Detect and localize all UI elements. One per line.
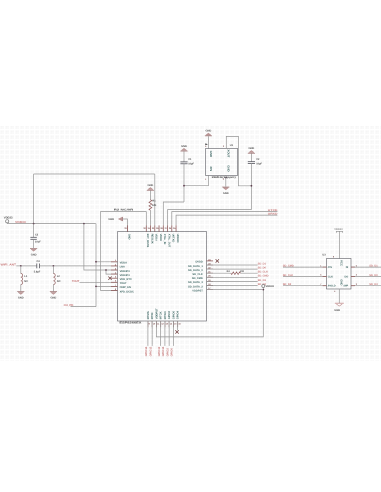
svg-text:GND: GND bbox=[51, 297, 57, 300]
svg-text:GPIO13: GPIO13 bbox=[158, 346, 161, 356]
ground under L1 bbox=[17, 291, 24, 299]
no-connect VDD_RTC bbox=[108, 277, 111, 280]
capacitor C2 10pF bbox=[248, 154, 263, 166]
wire to VDDA pin 1 bbox=[96, 261, 118, 263]
svg-text:U0RXD: U0RXD bbox=[176, 234, 179, 243]
svg-text:VDD33: VDD33 bbox=[334, 228, 343, 231]
pin 21 SD_CLK bbox=[192, 271, 213, 276]
svg-text:/WP: /WP bbox=[343, 285, 348, 288]
svg-text:VDDA: VDDA bbox=[155, 234, 158, 241]
svg-text:SD_CMD: SD_CMD bbox=[192, 277, 203, 280]
svg-text:VDDD: VDDD bbox=[159, 234, 162, 241]
pin 28 XTAL_IN bbox=[160, 225, 166, 244]
svg-text:SD_D0: SD_D0 bbox=[369, 274, 378, 277]
pin 27 XTAL_OUT bbox=[165, 225, 171, 247]
wire GPIO2 bbox=[168, 321, 170, 346]
capacitor C4 5.6pF (series) bbox=[34, 260, 41, 273]
svg-text:GND: GND bbox=[127, 234, 130, 240]
svg-text:SD_D1: SD_D1 bbox=[369, 265, 378, 268]
pin 15 GPIO0 bbox=[172, 310, 177, 327]
node CHIP_EN junction bbox=[95, 286, 97, 288]
wire VDD33 down to VDDA pin1 / CHIP_EN / CH_PD bbox=[95, 224, 97, 307]
pin 16 GPIO4 bbox=[177, 310, 182, 327]
svg-text:GND: GND bbox=[108, 218, 114, 221]
svg-text:SD_DATA_3: SD_DATA_3 bbox=[188, 281, 203, 284]
svg-text:VDDPST: VDDPST bbox=[155, 308, 158, 319]
node VDD3P3 branch junction bbox=[83, 223, 85, 225]
node L1 junction bbox=[20, 265, 22, 267]
resistor R1 12K bbox=[149, 191, 157, 226]
pin 7 CHIP_EN bbox=[111, 284, 131, 289]
wire to CHIP_EN pin 7 bbox=[96, 285, 118, 287]
wire SD_D2 bbox=[207, 285, 258, 287]
wire MTDO bbox=[164, 321, 166, 346]
svg-text:CHIP_EN: CHIP_EN bbox=[120, 286, 131, 289]
pin 6 CLK (U3) bbox=[283, 274, 333, 279]
svg-text:SD_CMD: SD_CMD bbox=[283, 265, 294, 268]
flash U3 body bbox=[322, 254, 351, 289]
pin 22 SD_DATA_0 bbox=[188, 267, 213, 272]
svg-text:SD_CMD: SD_CMD bbox=[258, 275, 269, 278]
svg-text:SD_CLK: SD_CLK bbox=[192, 273, 203, 276]
pin 2 LNA bbox=[111, 263, 125, 268]
capacitor C3 10uF bbox=[30, 224, 41, 248]
svg-text:CLK: CLK bbox=[328, 275, 333, 278]
wire VDD33 to VDD3P3 pin3 bbox=[84, 224, 118, 270]
svg-text:GND: GND bbox=[18, 297, 24, 300]
wire VDDPST pin17 bbox=[207, 289, 263, 291]
pin 23 SD_DATA_1 bbox=[188, 262, 213, 267]
pin marker crystal pin2 bbox=[225, 177, 228, 179]
no-connect DVDD bbox=[216, 259, 219, 262]
svg-text:NC: NC bbox=[24, 280, 28, 283]
wire SD_D3 bbox=[207, 280, 258, 282]
wire LNA (antenna) bbox=[16, 265, 37, 267]
wire GPIO4 stub bbox=[177, 321, 179, 330]
svg-text:VDD3P3: VDD3P3 bbox=[120, 274, 131, 277]
svg-text:/CS: /CS bbox=[328, 266, 333, 269]
svg-text:SD_D0: SD_D0 bbox=[258, 267, 267, 270]
svg-text:GPIO4: GPIO4 bbox=[177, 310, 180, 319]
svg-text:10uF: 10uF bbox=[35, 241, 41, 244]
wire MTDI bbox=[151, 321, 153, 346]
pin 5 DI (U3) bbox=[346, 264, 381, 269]
svg-text:SD_DATA_2: SD_DATA_2 bbox=[188, 285, 203, 288]
wire VDDA(30) drop bbox=[154, 174, 156, 225]
node pin3/pin4 tie bbox=[105, 269, 107, 271]
svg-text:/HOLD: /HOLD bbox=[328, 285, 336, 288]
wire GND pin 33 bbox=[123, 219, 128, 232]
pin 1 /CS (U3) bbox=[283, 264, 332, 269]
pin 19 SD_DATA_3 bbox=[188, 279, 213, 284]
node VDDA junction bbox=[95, 261, 97, 263]
resistor R4 200 (SD_CLK) bbox=[227, 270, 245, 274]
pin 29 VDDD bbox=[156, 225, 162, 241]
wire EXT_RSTB drop bbox=[145, 212, 147, 226]
svg-text:GND: GND bbox=[334, 309, 340, 312]
svg-text:SD_D3: SD_D3 bbox=[258, 279, 267, 282]
wire crystal pin2 to ground bbox=[225, 175, 227, 186]
capacitor C1 10pF bbox=[180, 151, 194, 165]
ground under U3 bbox=[334, 303, 344, 312]
ground (pin 33, sideways) bbox=[108, 217, 122, 221]
power flag VDD33 (top left) bbox=[4, 216, 13, 223]
node C2/XOUT junction bbox=[251, 185, 253, 187]
svg-text:GND: GND bbox=[223, 192, 229, 195]
svg-text:VDD33: VDD33 bbox=[266, 285, 275, 288]
power flag VDD33 (VDDPST) bbox=[262, 285, 275, 290]
pin 31 RES12K bbox=[148, 225, 154, 244]
node C1/XIN junction bbox=[183, 185, 185, 187]
svg-text:RES12K: RES12K bbox=[150, 234, 153, 244]
svg-text:GND: GND bbox=[148, 184, 154, 187]
svg-text:MTMS: MTMS bbox=[147, 311, 150, 319]
wire VDD33 rail bbox=[7, 223, 96, 225]
wire MTCK bbox=[160, 321, 162, 346]
node VDDPST junction bbox=[262, 289, 264, 291]
pin 5 VDD_RTC bbox=[111, 276, 132, 281]
pin 8 XPD_DCDC bbox=[111, 288, 134, 293]
node L2 junction bbox=[53, 265, 55, 267]
svg-text:DI: DI bbox=[346, 266, 349, 269]
svg-text:SD_DATA_1: SD_DATA_1 bbox=[188, 265, 203, 268]
svg-text:TOUT: TOUT bbox=[120, 282, 127, 285]
crystal U1 26MHz bbox=[205, 144, 237, 181]
svg-text:GPIO12: GPIO12 bbox=[149, 346, 152, 356]
svg-text:WIFI_ANT: WIFI_ANT bbox=[1, 263, 17, 266]
no-connect GPIO4 bbox=[175, 330, 178, 333]
svg-text:5.6pF: 5.6pF bbox=[34, 270, 41, 273]
pin 32 EXT_RSTB bbox=[143, 225, 149, 247]
svg-text:GND: GND bbox=[181, 145, 187, 148]
svg-text:VDDA: VDDA bbox=[120, 262, 127, 265]
wire VDD3P3 pin4 bracket bbox=[106, 270, 118, 274]
svg-text:GND: GND bbox=[226, 165, 230, 171]
svg-text:SD_DATA_0: SD_DATA_0 bbox=[188, 269, 203, 272]
svg-text:XTAL_OUT: XTAL_OUT bbox=[167, 234, 170, 248]
wire VDD33 up to top rail bbox=[33, 174, 35, 224]
svg-text:SD_D2: SD_D2 bbox=[283, 283, 292, 286]
ground above R1 bbox=[147, 184, 154, 191]
svg-text:VCC: VCC bbox=[340, 260, 344, 266]
svg-text:DO: DO bbox=[344, 275, 348, 278]
node VDD33/C3 junction bbox=[33, 223, 35, 225]
svg-text:GPIO2: GPIO2 bbox=[166, 348, 169, 357]
wire XIN to XTAL_IN pin bbox=[163, 202, 184, 225]
pin 14 GPIO2 bbox=[168, 310, 173, 327]
ground above C2 bbox=[248, 147, 255, 154]
wire XIN: crystal pin1 down to rail bbox=[184, 175, 208, 185]
wire MTMS bbox=[147, 321, 149, 346]
wire SD_D0 bbox=[207, 268, 258, 270]
svg-text:ESP8266EX: ESP8266EX bbox=[119, 322, 141, 325]
svg-text:VDDPST: VDDPST bbox=[192, 289, 203, 292]
wire C2 down to XOUT run bbox=[250, 164, 252, 210]
svg-text:10pF: 10pF bbox=[188, 162, 194, 165]
svg-text:GND: GND bbox=[206, 130, 212, 133]
svg-text:GPIO15: GPIO15 bbox=[162, 346, 165, 356]
ground above crystal bbox=[205, 130, 212, 137]
pin 6 TOUT bbox=[111, 280, 127, 285]
pin marker (arrow) crystal pin4 bbox=[205, 143, 208, 145]
wire C1 to XIN rail bbox=[183, 164, 185, 202]
grid background bbox=[0, 126, 381, 361]
svg-text:MTCK: MTCK bbox=[160, 311, 163, 319]
pin 11 VDDPST bbox=[155, 308, 160, 327]
svg-text:VDD_RTC: VDD_RTC bbox=[120, 278, 132, 281]
wire U0TXD bbox=[172, 212, 278, 226]
pin 1 VDDA bbox=[111, 259, 127, 264]
pin 12 MTCK bbox=[160, 311, 165, 327]
wire SD_CLK bbox=[207, 272, 231, 274]
pin 4 VDD3P3 bbox=[111, 272, 130, 277]
svg-text:12K: 12K bbox=[152, 204, 157, 207]
svg-text:XTAL_IN: XTAL_IN bbox=[163, 234, 166, 245]
pin 20 SD_CMD bbox=[192, 275, 213, 280]
ground above C1 bbox=[180, 145, 187, 152]
pin 30 VDDA bbox=[152, 225, 158, 241]
wire SD_D1 bbox=[207, 264, 258, 266]
svg-text:MTDO: MTDO bbox=[164, 311, 167, 319]
svg-text:MTDI: MTDI bbox=[151, 312, 154, 319]
pin 7 /HOLD (U3) bbox=[283, 283, 336, 288]
svg-text:VDD3P3: VDD3P3 bbox=[120, 270, 131, 273]
wire GPIO0 bbox=[172, 321, 174, 346]
svg-text:GND: GND bbox=[31, 253, 37, 256]
pin 13 MTDO bbox=[164, 311, 169, 327]
svg-text:XPD_DCDC: XPD_DCDC bbox=[120, 290, 134, 293]
ground under crystal bbox=[222, 187, 229, 195]
op-amp U2 ESP8266EX body bbox=[118, 232, 207, 325]
wire XPD_DCDC to EXT_RSTB bbox=[101, 212, 147, 291]
wire TOUT to pin 6 bbox=[80, 281, 118, 283]
pin 9 MTMS bbox=[147, 311, 151, 327]
svg-text:200: 200 bbox=[240, 270, 245, 273]
svg-text:GND: GND bbox=[249, 147, 255, 150]
svg-text:SD_D1: SD_D1 bbox=[258, 262, 267, 265]
svg-text:10pF: 10pF bbox=[256, 163, 262, 166]
pin 33 GND bbox=[124, 225, 130, 239]
svg-text:SD_CLK: SD_CLK bbox=[283, 274, 294, 277]
wire crystal pin4 to ground bbox=[207, 136, 209, 148]
wire SD_CMD bbox=[207, 276, 258, 278]
svg-text:LNA: LNA bbox=[120, 266, 125, 269]
svg-text:DVDD: DVDD bbox=[195, 261, 202, 264]
pin 24 DVDD bbox=[195, 258, 213, 263]
svg-text:SD_CLK: SD_CLK bbox=[258, 271, 269, 274]
svg-text:GPIO0: GPIO0 bbox=[172, 310, 175, 319]
wire U0RXD bbox=[176, 215, 277, 225]
svg-text:XIN: XIN bbox=[209, 166, 213, 171]
pin 25 U0RXD bbox=[173, 225, 179, 242]
svg-text:GPIO2: GPIO2 bbox=[168, 310, 171, 319]
inductor L1 (NC) bbox=[21, 266, 28, 291]
ground under L2 bbox=[50, 291, 57, 299]
wire top VDD33 rail bbox=[34, 173, 155, 175]
wire XOUT: crystal pin3 loop bbox=[226, 136, 251, 185]
svg-text:GND: GND bbox=[209, 151, 213, 157]
pin 3 /WP (U3) bbox=[343, 283, 381, 288]
ground under C3 bbox=[30, 248, 37, 256]
svg-text:VDD33: VDD33 bbox=[4, 216, 13, 219]
svg-text:GPIO0: GPIO0 bbox=[171, 348, 174, 357]
pin 18 SD_DATA_2 bbox=[188, 283, 213, 288]
svg-text:TOUT: TOUT bbox=[72, 280, 80, 283]
svg-text:XOUT: XOUT bbox=[226, 149, 230, 157]
pin 4 GND (U3) bbox=[334, 289, 339, 303]
power flag VDD33 (U3) bbox=[334, 228, 343, 258]
svg-text:EXT_RSTB: EXT_RSTB bbox=[146, 234, 149, 248]
wire VDDPST pin11 loop bbox=[156, 290, 263, 337]
svg-text:SD_D3: SD_D3 bbox=[369, 283, 378, 286]
pin 26 U0TXD bbox=[169, 225, 175, 242]
wire CH_PD bbox=[71, 306, 97, 308]
wire LNA to pin 2 bbox=[39, 265, 117, 267]
wire XOUT to XTAL_OUT pin bbox=[168, 210, 252, 226]
pin 10 MTDI bbox=[151, 312, 156, 327]
svg-text:GPIO14: GPIO14 bbox=[145, 346, 148, 356]
pin 2 DO (U3) bbox=[344, 274, 381, 279]
pin 17 VDDPST bbox=[192, 287, 213, 292]
svg-text:NC: NC bbox=[57, 280, 61, 283]
svg-text:U0TXD: U0TXD bbox=[172, 234, 175, 243]
pin 3 VDD3P3 bbox=[111, 267, 130, 272]
inductor L2 (NC) bbox=[53, 266, 60, 291]
